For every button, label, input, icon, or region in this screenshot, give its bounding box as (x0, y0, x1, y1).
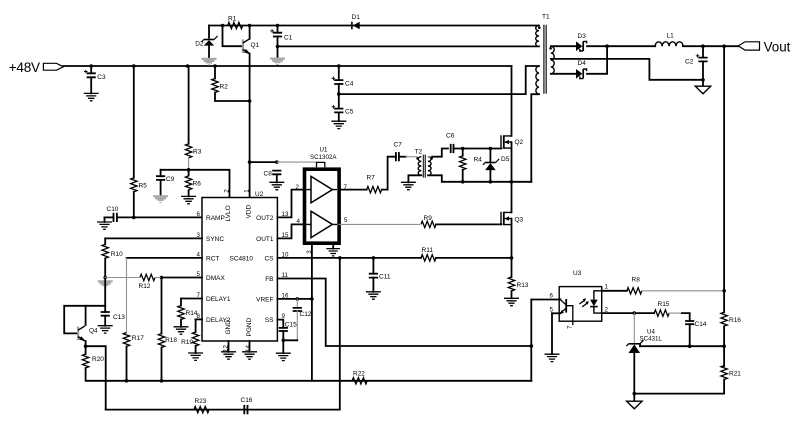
wire Q1 base (223, 26, 243, 47)
svg-text:5: 5 (344, 217, 348, 224)
capacitor C7 (396, 152, 399, 161)
svg-text:Q2: Q2 (515, 139, 524, 146)
label R9 (424, 215, 433, 222)
ground C3 (84, 93, 99, 100)
wire D5 bottom lead (489, 170, 491, 182)
label Q3 (515, 217, 524, 224)
wire T2 secondary top stub (428, 156, 432, 158)
pin number 7 U1 (344, 184, 348, 191)
pin number 11 FB (282, 272, 289, 279)
label C7 (394, 141, 403, 148)
label SC431L (640, 336, 663, 343)
label R15 (658, 301, 670, 308)
svg-text:LVLO: LVLO (225, 205, 232, 221)
wire to C14 (682, 313, 690, 321)
wire T1 primary2 bottom down (531, 94, 539, 182)
ground C11 (366, 292, 381, 299)
wire C10 left (105, 216, 114, 218)
capacitor C2 (696, 54, 708, 61)
wire C5 to ground (338, 112, 340, 121)
buffer U1 driver B (306, 211, 337, 237)
capacitor C8 (272, 171, 281, 175)
wire R12 right (155, 277, 162, 279)
svg-text:RAMP: RAMP (206, 215, 225, 222)
svg-text:C14: C14 (695, 321, 707, 328)
label R12 (139, 283, 151, 290)
wire R16 to R21 (723, 326, 725, 366)
wire U3 pin2 to R15 (602, 312, 654, 314)
wire VDD node to U2 pin 1 (249, 162, 251, 197)
wire VREF pin (277, 298, 312, 300)
wire DMAX to R18 (161, 278, 163, 334)
wire SYNC to R10 (104, 238, 106, 244)
label R17 (132, 335, 144, 342)
wire to C13 (104, 306, 106, 312)
ground U1 (326, 249, 340, 256)
svg-text:RCT: RCT (206, 256, 219, 263)
wire Q1 collector (249, 26, 251, 39)
wire R11 to Q3 source (436, 257, 512, 259)
diode D1 (352, 22, 360, 30)
pin label RCT (206, 256, 219, 263)
pin label PGND (rotated) (246, 317, 253, 336)
wire pin5 to ground (551, 313, 553, 354)
wire node to R6 (188, 170, 190, 176)
pin label DMAX (206, 275, 225, 282)
wire to U3 pin6 (531, 299, 559, 301)
capacitor C4 (332, 77, 344, 85)
wire C11 to ground (372, 278, 374, 292)
wire to U1 VDD pin (277, 161, 317, 163)
capacitor C11 (369, 274, 378, 278)
pin number 16 VREF (282, 292, 289, 299)
svg-text:VDD: VDD (245, 204, 252, 218)
wire R13 to ground (511, 291, 513, 298)
resistor R13 (508, 277, 514, 291)
pin label CS (264, 256, 274, 263)
wire D5 top lead (489, 149, 491, 162)
label C15 (285, 322, 297, 329)
pin number 2 U3 (605, 307, 609, 314)
wire node down to C13 row (104, 278, 106, 306)
shunt regulator U4 (SC431L) (626, 340, 643, 353)
optocoupler U3 light arrows (579, 298, 588, 307)
node C15/C12 (282, 339, 286, 343)
svg-text:OUT1: OUT1 (256, 236, 274, 243)
node Q2 source / Q3 drain (510, 180, 514, 184)
optocoupler U3 phototransistor (560, 299, 573, 325)
svg-text:C3: C3 (97, 74, 106, 81)
node divider mid (722, 344, 726, 348)
pin label VREF (256, 297, 273, 304)
wire Q3 source down (511, 219, 513, 277)
svg-text:C10: C10 (107, 206, 119, 213)
pin U1 VDD bracket (317, 162, 325, 167)
svg-text:T1: T1 (542, 14, 550, 21)
resistor R18 (158, 334, 164, 348)
phase dot T2 primary (416, 157, 419, 160)
label R22 (353, 371, 365, 378)
wire C3 to ground (90, 77, 92, 93)
wire bottom loop to CS node (106, 258, 340, 410)
pin number 6 U3 (550, 293, 554, 300)
wire R8 to divider (642, 290, 724, 292)
wire to C1 (277, 26, 279, 33)
label C16 (241, 397, 253, 404)
node R3 tap (186, 64, 190, 68)
svg-text:C9: C9 (166, 176, 175, 183)
wire rail to C3 (90, 66, 92, 73)
label C12 (300, 311, 312, 318)
capacitor C1 (270, 29, 282, 36)
label R2 (220, 84, 229, 91)
wire T2 secondary bottom / source rail (428, 175, 531, 182)
node VDD branch (248, 160, 252, 164)
wire C12 to C15 node (283, 339, 297, 341)
ground U2 PGND (242, 352, 257, 359)
svg-text:C16: C16 (241, 397, 253, 404)
svg-text:R22: R22 (353, 371, 365, 378)
svg-text:+48V: +48V (9, 60, 40, 75)
svg-text:R4: R4 (474, 157, 483, 164)
label C3 (97, 74, 106, 81)
transformer T1 primary winding 1 (536, 26, 539, 47)
resistor R14 (178, 306, 184, 320)
svg-text:2: 2 (223, 189, 230, 193)
ground triangle C2 (695, 86, 710, 94)
capacitor C14 (685, 321, 694, 324)
wire DELAY2 pin (196, 318, 202, 320)
svg-text:FB: FB (265, 276, 273, 283)
svg-text:D1: D1 (352, 14, 361, 21)
svg-text:R16: R16 (729, 317, 741, 324)
svg-text:L1: L1 (667, 33, 675, 40)
chassis ground R10/R12 (98, 280, 113, 288)
wire SS to C15 (277, 320, 283, 328)
node D5 top (489, 147, 493, 151)
connector Vout (738, 42, 759, 50)
pin number 6 RAMP (197, 211, 201, 218)
node R2 tap (213, 64, 217, 68)
svg-text:R12: R12 (139, 283, 151, 290)
svg-text:C12: C12 (300, 311, 312, 318)
wire DMAX pin (162, 277, 203, 279)
wire secondary top to D3 (551, 45, 576, 47)
svg-text:1: 1 (243, 189, 250, 193)
svg-text:PGND: PGND (246, 317, 253, 336)
wire C7 to T2 gray (406, 156, 417, 158)
node pin3/VREF (310, 297, 314, 301)
resistor R4 (460, 156, 466, 170)
wire U1 out5 to R9 (339, 223, 419, 225)
ground R6 (181, 196, 196, 203)
node FB/optocollector/railA (530, 344, 534, 348)
node C12 top (296, 297, 300, 301)
label L1 (667, 33, 675, 40)
pin number 9 SS (282, 313, 286, 320)
ground C5 (331, 121, 346, 128)
label C9 (166, 176, 175, 183)
pin number 3 U1 (rotated) (306, 250, 313, 254)
svg-text:D5: D5 (501, 156, 510, 163)
svg-text:SS: SS (265, 317, 274, 324)
wire center tap to C2 bottom (551, 59, 703, 80)
resistor R2 (212, 79, 218, 93)
wire to Q4 base (64, 306, 105, 334)
ground R13 (504, 298, 519, 305)
wire opto collector vertical (530, 300, 532, 381)
label C14 (695, 321, 707, 328)
wire U4 cathode elbow (639, 344, 641, 346)
wire C1 node to T1 primary1 bottom (278, 45, 540, 47)
zener diode D2 (202, 36, 218, 46)
label R21 (729, 371, 741, 378)
wire PGND pin (249, 341, 251, 352)
wire DELAY2 to R19 (195, 319, 197, 332)
pin number 14 PGND (rotated) (245, 345, 252, 352)
wire C1 bottom (277, 37, 279, 47)
wire rail to C4 (338, 66, 340, 80)
wire C2 bottom (702, 61, 704, 79)
phase dot T2 secondary (430, 157, 433, 160)
node D3/D4 join (605, 44, 609, 48)
node R11/Q3 source (510, 256, 514, 260)
node R1 left / Q1 base tap (221, 24, 225, 28)
transistor Q4 (78, 326, 86, 342)
mosfet Q3 (501, 212, 512, 225)
wire U1 out7 to R7 (339, 189, 367, 191)
label C11 (379, 274, 391, 281)
resistor R9 (421, 221, 436, 227)
label Q4 (89, 328, 98, 335)
wire top rail (R1/D1) (209, 25, 539, 27)
svg-text:Vout: Vout (764, 40, 791, 55)
label R7 (367, 175, 376, 182)
inductor L1 (655, 42, 683, 46)
node C1 bottom (276, 45, 280, 49)
label D1 (352, 14, 361, 21)
svg-text:R19: R19 (181, 339, 193, 346)
wire R2 bottom to emitter line (215, 93, 250, 102)
wire RAMP pin (134, 216, 202, 218)
wire C4/C5 node to T1 primary2 top (339, 66, 539, 94)
wire to C11 (372, 258, 374, 274)
label U4 (647, 329, 655, 336)
pin number 4 U1 (297, 218, 301, 225)
node R17 on rail A (125, 379, 129, 383)
node U4 anode/R21 (633, 392, 637, 396)
svg-text:C4: C4 (345, 80, 354, 87)
wire C7 to T2 (399, 156, 406, 158)
label R1 (228, 16, 237, 23)
resistor R8 (627, 288, 642, 294)
wire C1 node to ground (277, 46, 279, 57)
pin number 2 U1 (296, 184, 300, 191)
svg-text:C15: C15 (285, 322, 297, 329)
pin number 10 CS (282, 251, 289, 258)
svg-text:R17: R17 (132, 335, 144, 342)
node C1 top (276, 24, 280, 28)
wire D3 out to L1 (587, 45, 655, 47)
svg-text:U4: U4 (647, 329, 655, 336)
label D3 (578, 33, 587, 40)
pin number 12 GND (rotated) (223, 345, 230, 352)
svg-text:R5: R5 (139, 183, 148, 190)
wire R20 bottom rail A (86, 368, 532, 381)
pin label DELAY2 (206, 317, 231, 324)
pin label DELAY1 (206, 296, 231, 303)
capacitor C5 (332, 105, 344, 112)
label C4 (345, 80, 354, 87)
wire C6 to Q2 gate (454, 148, 502, 150)
transformer T2 core (423, 155, 425, 178)
wire D4 out up to node (587, 46, 607, 74)
wire R5 to RAMP node (133, 192, 135, 218)
ground triangle U4 (627, 401, 642, 409)
resistor R21 (721, 366, 727, 380)
label SC1302A (310, 154, 337, 161)
wire node to LVLO pin (161, 170, 230, 198)
wire R6 to ground (188, 190, 190, 196)
svg-text:T2: T2 (415, 149, 423, 156)
wire U1 ground pin (332, 245, 334, 249)
svg-text:R10: R10 (111, 251, 123, 258)
svg-text:R23: R23 (195, 398, 207, 405)
pin number 7 U3 (rotated) (566, 325, 573, 329)
wire Q4 collector up (85, 306, 87, 325)
wire FB to opto node (277, 279, 531, 347)
IC U2 SC4810 body (202, 198, 277, 342)
svg-text:C13: C13 (113, 314, 125, 321)
svg-text:SC4810: SC4810 (230, 256, 254, 263)
wire R14 to ground (180, 320, 182, 327)
wire emitter node to bottom loop (86, 346, 106, 409)
wire SYNC pin (105, 237, 202, 239)
label Vout (764, 40, 791, 55)
wire node to C5 (338, 94, 340, 109)
wire GND pin (228, 341, 230, 352)
label C2 (685, 59, 694, 66)
resistor R7 (367, 186, 382, 192)
node C8 top (275, 160, 279, 164)
label Q2 (515, 139, 524, 146)
svg-text:R8: R8 (632, 277, 641, 284)
svg-text:Q4: Q4 (89, 328, 98, 335)
pin label SYNC (206, 236, 224, 243)
wire R21 bottom to U4 anode (634, 393, 724, 395)
wire VREF to C12 (296, 299, 298, 308)
wire C8 to ground (276, 174, 278, 182)
svg-text:R9: R9 (424, 215, 433, 222)
label R13 (517, 282, 529, 289)
resistor R19 (192, 332, 198, 346)
svg-text:R13: R13 (517, 282, 529, 289)
wire R15 out (669, 312, 682, 314)
transformer T2 secondary (428, 157, 431, 176)
IC U1 SC1302A body (305, 169, 340, 243)
pin label SS (265, 317, 274, 324)
node R10/R12 (103, 276, 107, 280)
wire U4 cathode to divider mid (640, 345, 724, 347)
svg-text:SC1302A: SC1302A (310, 154, 337, 161)
pin number 7 DELAY1 (197, 292, 201, 299)
wire Q4 emitter (85, 341, 87, 346)
wire CS pin to R11 (277, 257, 421, 259)
svg-text:U2: U2 (255, 191, 264, 198)
wire U4 anode down (633, 353, 635, 401)
ground U2 GND (221, 352, 236, 359)
resistor R10 (102, 244, 108, 258)
wire to D2 cathode (208, 26, 210, 38)
ground R14 (174, 327, 189, 334)
chassis ground C1 (270, 58, 285, 66)
wire OUT2 to U1 in2 (277, 190, 304, 218)
node U4 tap (633, 311, 637, 315)
svg-text:C2: C2 (685, 59, 694, 66)
schottky diode D4 (576, 69, 587, 79)
svg-text:R18: R18 (165, 337, 177, 344)
wire R4 bottom lead (462, 170, 464, 182)
label R11 (422, 247, 434, 254)
svg-text:C1: C1 (284, 35, 293, 42)
wire D2 anode to ground (208, 46, 210, 58)
svg-text:CS: CS (264, 256, 274, 263)
wire R9 to Q3 gate (436, 223, 501, 225)
wire C10 right (117, 216, 134, 218)
label C10 (107, 206, 119, 213)
wire VDD node to C8 (250, 161, 277, 163)
wire RCT to R17 (126, 258, 128, 333)
capacitor C9 (156, 176, 165, 180)
buffer U1 driver A (306, 176, 337, 202)
node C14/cathode wire (688, 344, 692, 348)
wire Q2 source down (511, 142, 513, 182)
label R19 (181, 339, 193, 346)
capacitor C3 (84, 70, 96, 78)
wire node to C9 (160, 170, 162, 176)
chassis ground D2 (202, 58, 217, 66)
resistor R5 (131, 178, 137, 192)
label D4 (578, 60, 587, 67)
pin number 3 SYNC (197, 232, 201, 239)
label C5 (345, 109, 354, 116)
svg-text:7: 7 (566, 325, 573, 329)
label +48V (9, 60, 40, 75)
node C11 (372, 256, 376, 260)
svg-text:R7: R7 (367, 175, 376, 182)
wire node to R20 (85, 346, 87, 354)
label C1 (284, 35, 293, 42)
svg-text:D2: D2 (195, 41, 204, 48)
wire R17 to bottom rail (126, 347, 128, 381)
wire rail to R2 (214, 66, 216, 79)
wire OUT1 to U1 in4 (277, 224, 304, 238)
node C2 top (701, 44, 705, 48)
wire rail to R3 (188, 66, 189, 144)
wire C10 to ground (104, 217, 106, 222)
wire L1 to Vout (683, 45, 738, 47)
wire node to U4 cathode (633, 313, 635, 343)
pin number 1 VDD (rotated) (243, 189, 250, 193)
wire R4 top lead (462, 149, 464, 156)
transformer T1 secondary winding (551, 46, 554, 74)
wire U1 pin3 down to rail A (311, 245, 313, 381)
svg-text:SC431L: SC431L (640, 336, 663, 343)
pin number 2 LVLO (rotated) (223, 189, 230, 193)
label T2 (415, 149, 423, 156)
resistor R16 (721, 312, 727, 326)
transformer T2 primary (418, 157, 421, 176)
